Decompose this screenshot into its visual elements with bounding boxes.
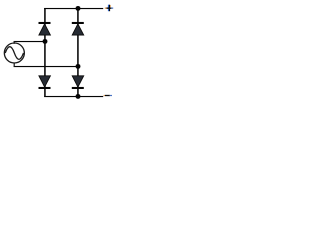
diode D3 cathode bar: [39, 87, 51, 89]
AC source sine wave: [5, 47, 23, 60]
diode D4 triangle: [72, 76, 84, 87]
diode D1 cathode bar: [39, 22, 51, 24]
diode D2 cathode bar: [72, 22, 84, 24]
diode D4 cathode bar: [72, 87, 84, 89]
junction node top rail: [76, 6, 81, 11]
wire AC source bottom stub: [14, 63, 15, 66]
diode D2 triangle: [72, 24, 84, 35]
wire right column: [77, 8, 79, 97]
wire left column: [44, 8, 46, 97]
diode D1 triangle: [39, 24, 51, 35]
wire AC source top stub: [14, 41, 15, 44]
diode D3 triangle: [39, 76, 51, 87]
AC source V1 circle: [4, 43, 24, 63]
wire AC bottom lead: [14, 66, 79, 67]
junction node right mid: [76, 64, 81, 69]
wire top rail: [44, 8, 103, 9]
junction node bottom rail: [76, 94, 81, 99]
junction node left mid: [43, 39, 48, 44]
wire AC top lead: [14, 41, 46, 42]
minus terminal label: [104, 95, 112, 96]
plus terminal label: [105, 5, 113, 12]
wire bottom rail: [44, 96, 103, 97]
